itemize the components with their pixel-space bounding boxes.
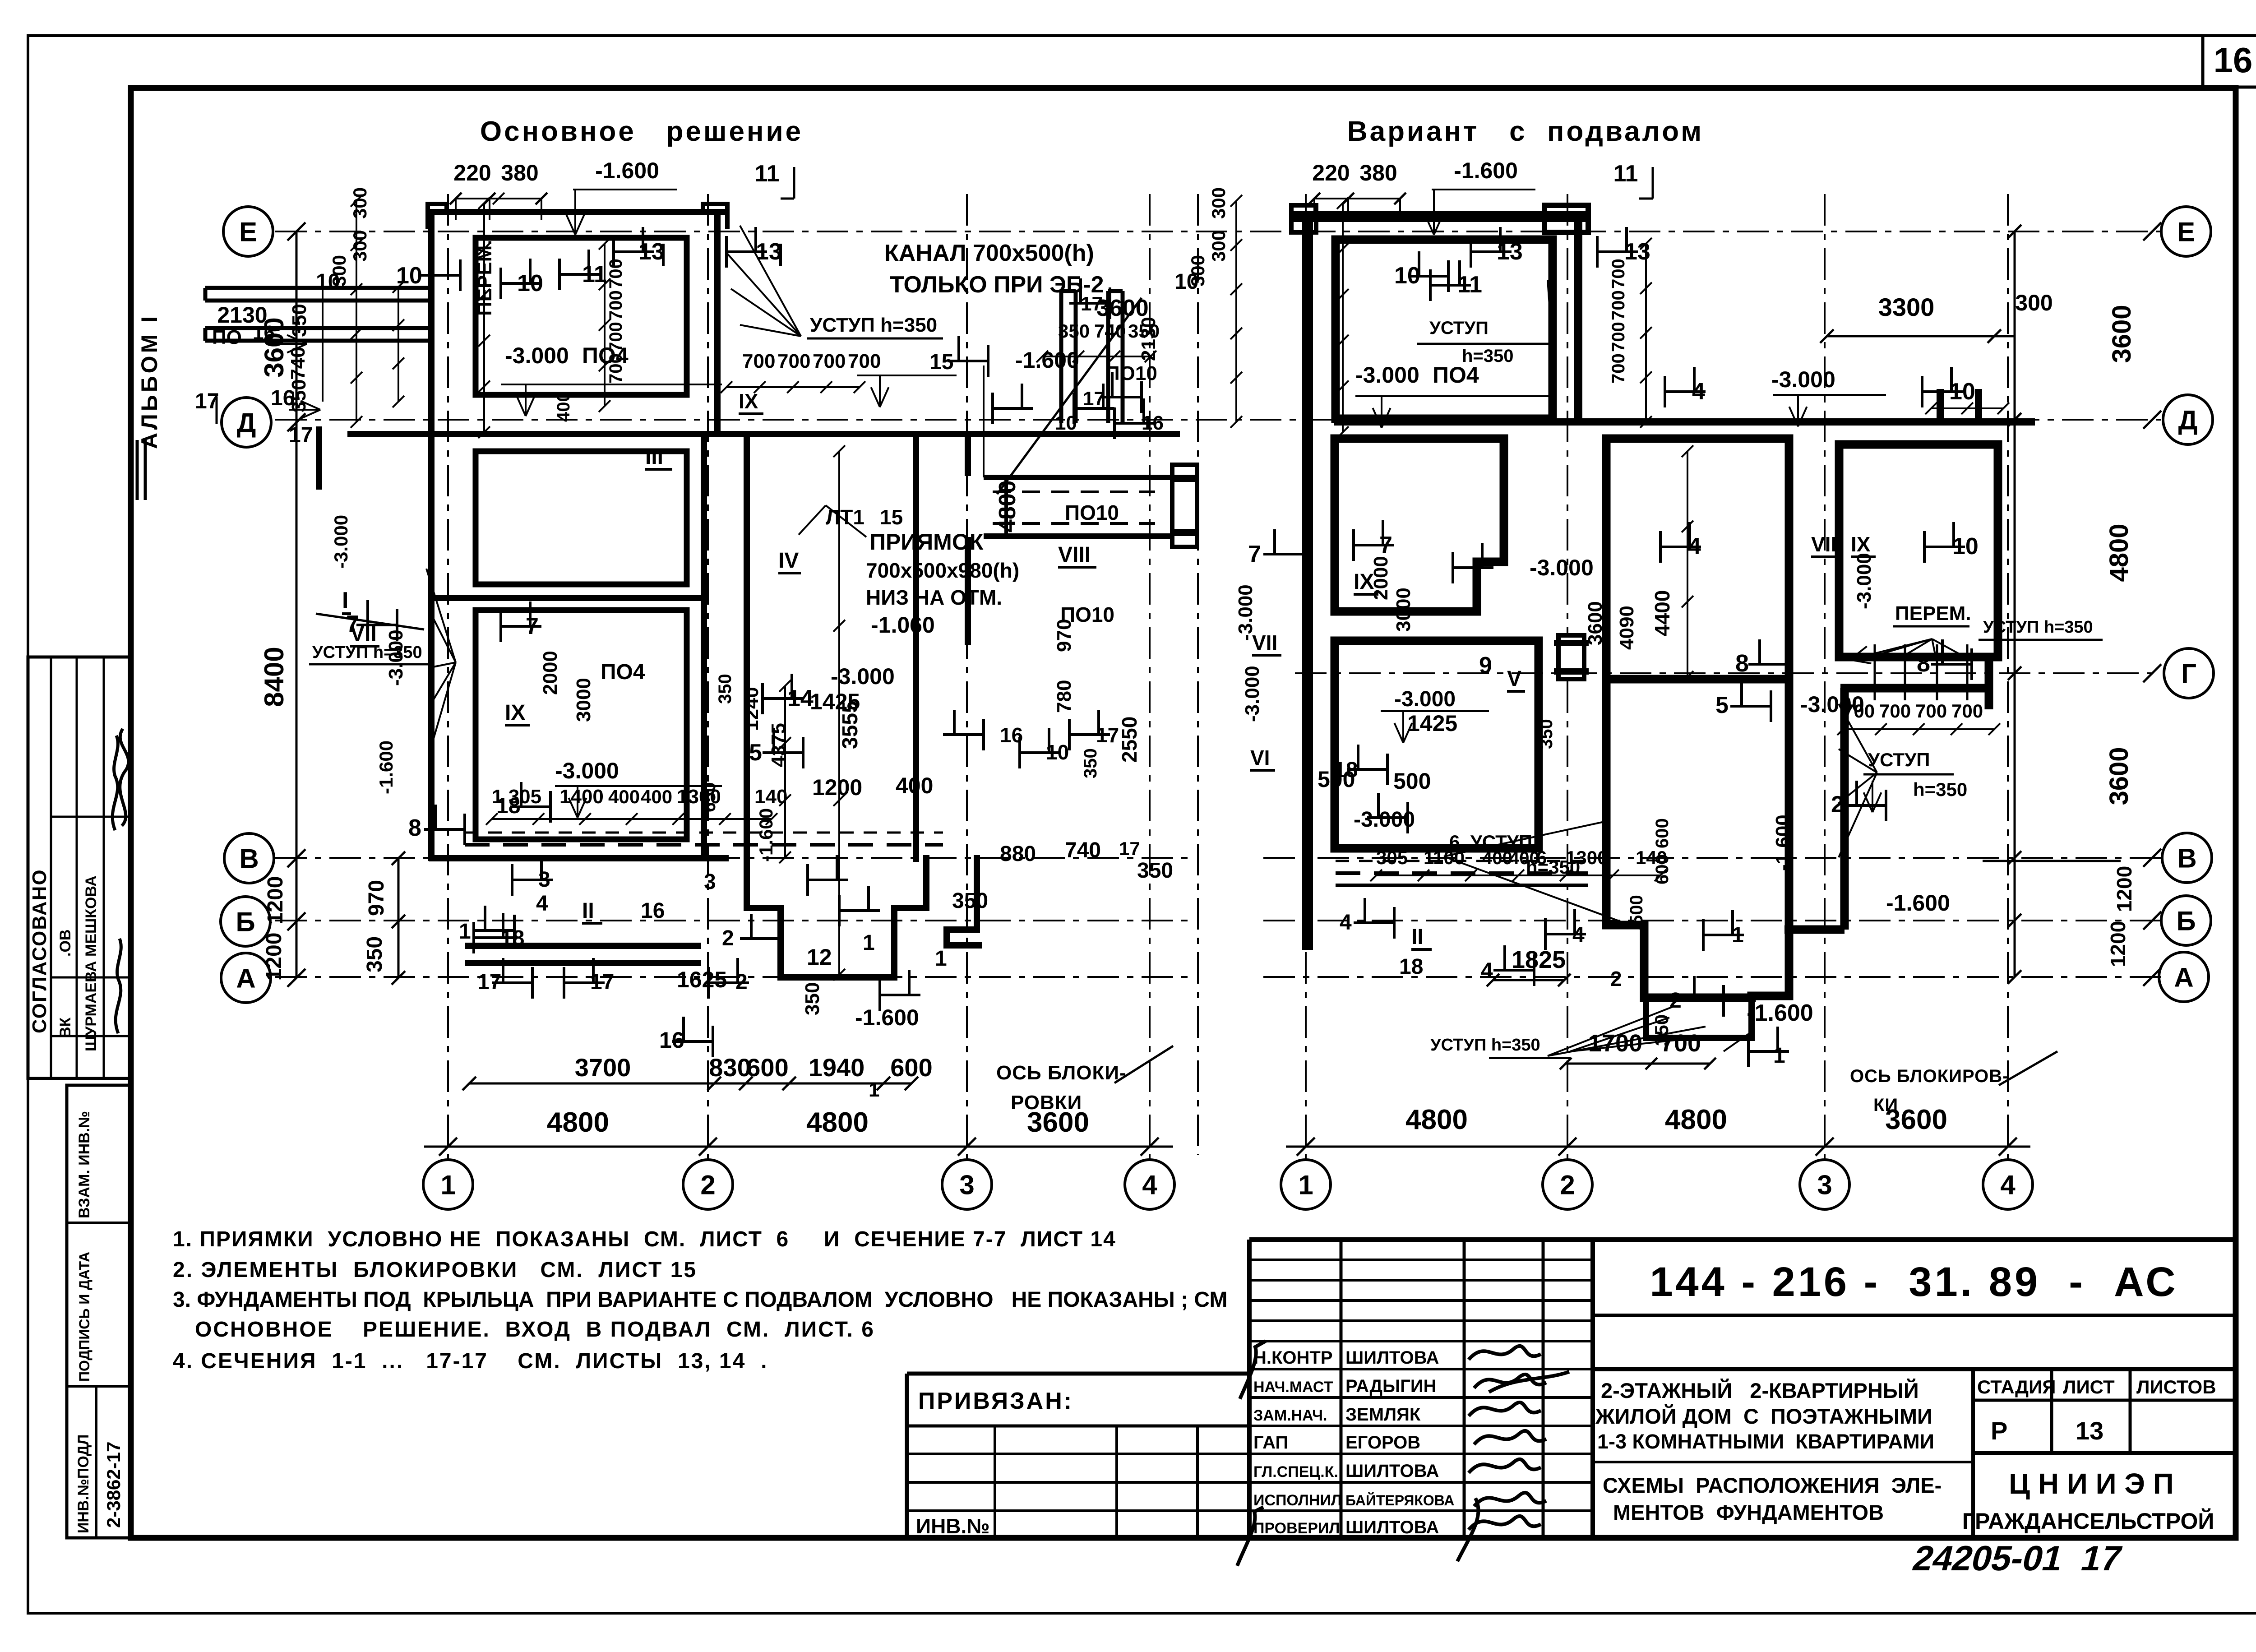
svg-text:13: 13 xyxy=(2076,1416,2103,1445)
svg-text:3: 3 xyxy=(704,870,716,894)
svg-text:ПРИВЯЗАН:: ПРИВЯЗАН: xyxy=(918,1388,1073,1414)
svg-text:МЕШКОВА: МЕШКОВА xyxy=(83,875,100,957)
svg-text:-1.600: -1.600 xyxy=(375,740,397,794)
svg-text:ПРОВЕРИЛ: ПРОВЕРИЛ xyxy=(1253,1520,1340,1537)
svg-text:1: 1 xyxy=(440,1170,455,1200)
svg-text:ИНВ.№ПОДЛ: ИНВ.№ПОДЛ xyxy=(75,1435,92,1533)
svg-text:220: 220 xyxy=(453,160,491,185)
svg-text:700: 700 xyxy=(1609,322,1628,352)
svg-text:СОГЛАСОВАНО: СОГЛАСОВАНО xyxy=(28,869,51,1033)
svg-text:РОВКИ: РОВКИ xyxy=(1011,1092,1082,1114)
svg-text:АЛЬБОМ I: АЛЬБОМ I xyxy=(137,314,162,449)
svg-text:3555: 3555 xyxy=(838,701,862,749)
svg-text:2. ЭЛЕМЕНТЫ БЛОКИРОВКИ СМ.: 2. ЭЛЕМЕНТЫ БЛОКИРОВКИ СМ. ЛИСТ 15 xyxy=(173,1258,697,1282)
svg-text:400: 400 xyxy=(1482,848,1512,868)
svg-text:2: 2 xyxy=(722,926,734,950)
svg-text:700: 700 xyxy=(1609,259,1628,289)
svg-text:ОСНОВНОЕ РЕШЕНИЕ. ВХОД В: ОСНОВНОЕ РЕШЕНИЕ. ВХОД В ПОДВАЛ СМ. ЛИСТ… xyxy=(195,1318,875,1342)
svg-text:380: 380 xyxy=(501,160,538,185)
svg-text:4: 4 xyxy=(1340,911,1352,935)
svg-text:17: 17 xyxy=(289,423,313,447)
svg-text:Е: Е xyxy=(2177,217,2195,247)
svg-text:1 305: 1 305 xyxy=(492,786,541,808)
svg-text:1425: 1425 xyxy=(1407,711,1457,736)
svg-text:V: V xyxy=(1507,667,1521,691)
svg-text:10: 10 xyxy=(1174,270,1198,294)
svg-text:305: 305 xyxy=(1376,847,1408,868)
svg-text:IV: IV xyxy=(778,549,799,573)
svg-text:II: II xyxy=(1411,925,1424,949)
svg-text:220: 220 xyxy=(1312,160,1350,185)
svg-text:1200: 1200 xyxy=(262,933,286,981)
svg-text:5: 5 xyxy=(749,740,762,766)
svg-text:2: 2 xyxy=(700,1170,715,1200)
svg-text:2: 2 xyxy=(1560,1170,1575,1200)
svg-text:4: 4 xyxy=(2000,1170,2016,1200)
svg-text:8: 8 xyxy=(408,815,421,841)
svg-text:700: 700 xyxy=(1609,290,1628,320)
svg-text:VIII: VIII xyxy=(1058,543,1091,567)
svg-text:А: А xyxy=(2174,963,2193,993)
svg-text:700: 700 xyxy=(606,259,626,289)
svg-text:16: 16 xyxy=(271,386,295,410)
svg-text:350: 350 xyxy=(363,936,387,972)
svg-text:Р: Р xyxy=(1991,1416,2007,1445)
svg-text:350: 350 xyxy=(1536,719,1556,749)
svg-text:350: 350 xyxy=(801,982,823,1015)
svg-text:400: 400 xyxy=(641,786,672,807)
svg-text:3: 3 xyxy=(1817,1170,1832,1200)
svg-text:4: 4 xyxy=(1142,1170,1157,1200)
svg-text:12: 12 xyxy=(807,944,832,970)
svg-text:НИЗ НА ОТМ.: НИЗ НА ОТМ. xyxy=(866,586,1002,609)
svg-text:300: 300 xyxy=(349,187,370,219)
svg-text:ПО4: ПО4 xyxy=(601,660,645,684)
svg-text:ШИЛТОВА: ШИЛТОВА xyxy=(1345,1518,1439,1537)
svg-text:ОСЬ БЛОКИРОВ-: ОСЬ БЛОКИРОВ- xyxy=(1850,1066,2009,1086)
svg-text:ОСЬ БЛОКИ-: ОСЬ БЛОКИ- xyxy=(996,1062,1127,1084)
svg-text:16: 16 xyxy=(641,899,665,923)
svg-text:700: 700 xyxy=(1879,700,1911,722)
svg-text:-3.000: -3.000 xyxy=(505,343,569,368)
svg-text:IX: IX xyxy=(1851,532,1871,556)
svg-text:СТАДИЯ: СТАДИЯ xyxy=(1977,1376,2056,1397)
svg-text:ЗАМ.НАЧ.: ЗАМ.НАЧ. xyxy=(1253,1407,1327,1424)
svg-text:400: 400 xyxy=(554,392,573,422)
svg-text:880: 880 xyxy=(1000,842,1036,866)
svg-text:I: I xyxy=(342,588,348,614)
svg-text:400: 400 xyxy=(896,773,933,798)
svg-text:В: В xyxy=(239,844,259,874)
svg-text:VI: VI xyxy=(1250,746,1270,769)
svg-text:ПО4: ПО4 xyxy=(1433,362,1479,388)
svg-text:16: 16 xyxy=(2214,40,2253,80)
svg-text:-1.600: -1.600 xyxy=(595,158,659,183)
svg-text:10: 10 xyxy=(316,270,340,294)
svg-text:4800: 4800 xyxy=(2104,523,2134,582)
svg-text:4800: 4800 xyxy=(994,480,1021,532)
svg-text:144 - 216 - 31. 89 - АС: 144 - 216 - 31. 89 - АС xyxy=(1650,1259,2178,1305)
svg-text:3600: 3600 xyxy=(2107,305,2136,363)
svg-text:Н.КОНТР: Н.КОНТР xyxy=(1253,1348,1333,1368)
svg-text:КИ: КИ xyxy=(1873,1095,1898,1115)
svg-text:ЛИСТ: ЛИСТ xyxy=(2063,1376,2115,1397)
svg-text:400: 400 xyxy=(1509,848,1539,868)
svg-text:700: 700 xyxy=(777,350,810,372)
svg-text:h=350: h=350 xyxy=(1462,346,1514,366)
svg-text:11: 11 xyxy=(1613,161,1638,187)
svg-text:1300: 1300 xyxy=(1566,847,1608,868)
svg-text:350: 350 xyxy=(288,304,310,337)
svg-text:-1.600: -1.600 xyxy=(1886,890,1950,916)
svg-text:700: 700 xyxy=(1915,700,1947,722)
svg-text:2: 2 xyxy=(1831,791,1844,818)
svg-text:500: 500 xyxy=(1627,895,1646,925)
svg-text:ЛИСТОВ: ЛИСТОВ xyxy=(2136,1376,2216,1397)
svg-text:ЖИЛОЙ ДОМ С ПОЭТАЖНЫМИ: ЖИЛОЙ ДОМ С ПОЭТАЖНЫМИ xyxy=(1595,1404,1932,1428)
svg-text:140: 140 xyxy=(754,786,787,808)
svg-text:-3.000: -3.000 xyxy=(1241,666,1263,722)
svg-text:.ОВ: .ОВ xyxy=(57,930,74,957)
svg-text:УСТУП h=350: УСТУП h=350 xyxy=(1430,1036,1540,1055)
svg-text:1940: 1940 xyxy=(809,1053,865,1082)
svg-text:300: 300 xyxy=(1208,230,1229,262)
svg-text:Д: Д xyxy=(237,408,256,438)
svg-text:1: 1 xyxy=(1773,1044,1785,1068)
svg-text:3600: 3600 xyxy=(1584,601,1606,645)
svg-text:III: III xyxy=(645,445,663,469)
svg-text:А: А xyxy=(236,963,255,994)
svg-text:11: 11 xyxy=(755,161,780,187)
svg-text:700: 700 xyxy=(1951,700,1983,722)
svg-text:СХЕМЫ РАСПОЛОЖЕНИЯ ЭЛЕ-: СХЕМЫ РАСПОЛОЖЕНИЯ ЭЛЕ- xyxy=(1603,1473,1942,1497)
svg-text:4800: 4800 xyxy=(1405,1104,1468,1135)
svg-text:ИСПОЛНИЛ: ИСПОЛНИЛ xyxy=(1253,1492,1342,1509)
svg-text:ЗЕМЛЯК: ЗЕМЛЯК xyxy=(1345,1405,1421,1425)
svg-text:УСТУП h=350: УСТУП h=350 xyxy=(810,314,937,336)
svg-text:700: 700 xyxy=(813,350,846,372)
svg-text:ИНВ.№: ИНВ.№ xyxy=(916,1514,990,1538)
svg-text:II: II xyxy=(582,899,594,923)
svg-text:4: 4 xyxy=(1481,959,1493,983)
svg-text:1: 1 xyxy=(863,931,875,955)
svg-text:ВК: ВК xyxy=(57,1017,74,1038)
svg-text:1200: 1200 xyxy=(812,775,862,800)
svg-text:ПОДПИСЬ И ДАТА: ПОДПИСЬ И ДАТА xyxy=(76,1252,92,1382)
svg-text:ГЛ.СПЕЦ.К.: ГЛ.СПЕЦ.К. xyxy=(1253,1463,1338,1481)
svg-text:УСТУП: УСТУП xyxy=(1429,318,1489,338)
svg-text:-3.000: -3.000 xyxy=(555,758,619,783)
svg-text:Основное решение: Основное решение xyxy=(480,116,803,147)
svg-text:3000: 3000 xyxy=(573,678,595,722)
svg-text:Е: Е xyxy=(239,217,257,247)
svg-text:-3.000: -3.000 xyxy=(1853,553,1875,609)
svg-text:2130: 2130 xyxy=(1137,317,1160,361)
svg-text:740: 740 xyxy=(1065,838,1101,862)
svg-text:4375: 4375 xyxy=(767,723,790,767)
svg-text:350: 350 xyxy=(1058,320,1090,342)
svg-text:4800: 4800 xyxy=(806,1107,869,1138)
svg-text:-3.000: -3.000 xyxy=(1530,555,1594,580)
svg-text:15: 15 xyxy=(880,505,903,529)
svg-text:600: 600 xyxy=(746,1053,788,1082)
svg-text:17: 17 xyxy=(1083,388,1105,410)
svg-text:4090: 4090 xyxy=(1616,606,1638,650)
svg-text:-1.060: -1.060 xyxy=(871,612,935,638)
svg-text:ГРАЖДАНСЕЛЬСТРОЙ: ГРАЖДАНСЕЛЬСТРОЙ xyxy=(1962,1508,2214,1534)
svg-text:2-ЭТАЖНЫЙ 2-КВАРТИРНЫЙ: 2-ЭТАЖНЫЙ 2-КВАРТИРНЫЙ xyxy=(1601,1379,1919,1402)
svg-text:8: 8 xyxy=(1917,650,1930,677)
svg-text:3. ФУНДАМЕНТЫ ПОД КРЫЛЬЦА ПР: 3. ФУНДАМЕНТЫ ПОД КРЫЛЬЦА ПРИ ВАРИАНТЕ С… xyxy=(173,1288,1227,1312)
svg-text:УСТУП: УСТУП xyxy=(1868,749,1930,770)
svg-text:VII: VII xyxy=(1811,532,1836,556)
svg-text:Вариант с подвалом: Вариант с подвалом xyxy=(1347,116,1704,147)
svg-text:-1.600: -1.600 xyxy=(1454,158,1518,183)
svg-text:6: 6 xyxy=(1536,847,1547,868)
svg-text:380: 380 xyxy=(1359,160,1397,185)
svg-text:Г: Г xyxy=(2181,659,2196,689)
svg-text:500: 500 xyxy=(1393,768,1431,794)
svg-text:1200: 1200 xyxy=(264,876,287,925)
svg-text:-3.000: -3.000 xyxy=(1355,362,1419,388)
svg-text:1200: 1200 xyxy=(2113,866,2136,912)
svg-text:НАЧ.МАСТ: НАЧ.МАСТ xyxy=(1253,1379,1333,1396)
svg-text:1-3 КОМНАТНЫМИ КВАРТИРАМИ: 1-3 КОМНАТНЫМИ КВАРТИРАМИ xyxy=(1597,1430,1934,1453)
svg-text:7: 7 xyxy=(1248,541,1261,567)
svg-text:2: 2 xyxy=(1669,989,1682,1013)
svg-text:1625: 1625 xyxy=(677,967,727,992)
svg-text:IX: IX xyxy=(739,389,758,413)
svg-text:4400: 4400 xyxy=(1650,590,1674,636)
svg-text:350: 350 xyxy=(1137,859,1173,883)
svg-text:-3.000: -3.000 xyxy=(330,515,351,569)
svg-text:700х500х980(h): 700х500х980(h) xyxy=(866,559,1019,582)
svg-text:8: 8 xyxy=(1735,650,1749,677)
svg-text:700: 700 xyxy=(1843,700,1875,722)
svg-text:1240: 1240 xyxy=(740,687,763,731)
svg-text:4800: 4800 xyxy=(547,1107,609,1138)
svg-text:970: 970 xyxy=(365,880,388,916)
svg-text:БАЙТЕРЯКОВА: БАЙТЕРЯКОВА xyxy=(1345,1492,1454,1509)
svg-text:9: 9 xyxy=(1479,652,1492,679)
svg-text:-3.000: -3.000 xyxy=(1771,367,1835,392)
svg-text:ВЗАМ. ИНВ.№: ВЗАМ. ИНВ.№ xyxy=(76,1111,93,1218)
svg-text:17: 17 xyxy=(1119,838,1140,859)
svg-text:4. СЕЧЕНИЯ 1-1 ... 17-17: 4. СЕЧЕНИЯ 1-1 ... 17-17 СМ. ЛИСТЫ 13, 1… xyxy=(173,1349,768,1373)
svg-text:3300: 3300 xyxy=(1878,293,1935,321)
svg-text:1100: 1100 xyxy=(1424,847,1465,868)
svg-text:830: 830 xyxy=(709,1053,751,1082)
svg-text:300: 300 xyxy=(2015,290,2053,315)
svg-text:600: 600 xyxy=(890,1053,932,1082)
svg-text:17: 17 xyxy=(195,389,219,413)
svg-text:h=350: h=350 xyxy=(1913,779,1967,800)
svg-text:2-3862-17: 2-3862-17 xyxy=(103,1442,124,1528)
svg-text:600: 600 xyxy=(1652,818,1672,848)
svg-text:3: 3 xyxy=(959,1170,974,1200)
svg-text:РАДЫГИН: РАДЫГИН xyxy=(1345,1376,1437,1396)
svg-text:350: 350 xyxy=(952,889,988,913)
svg-text:-3.000: -3.000 xyxy=(1354,808,1415,832)
svg-text:-3.000: -3.000 xyxy=(1394,687,1456,711)
svg-text:3700: 3700 xyxy=(575,1053,631,1082)
svg-text:350: 350 xyxy=(715,674,735,704)
svg-text:ШИЛТОВА: ШИЛТОВА xyxy=(1345,1348,1439,1368)
svg-text:1400: 1400 xyxy=(559,786,604,808)
svg-text:700: 700 xyxy=(606,353,626,384)
svg-text:Ц Н И И Э П: Ц Н И И Э П xyxy=(2009,1467,2173,1500)
svg-text:-1.600: -1.600 xyxy=(1747,1000,1813,1026)
svg-text:1: 1 xyxy=(1298,1170,1313,1200)
svg-text:Б: Б xyxy=(236,907,255,937)
svg-text:1: 1 xyxy=(869,1079,879,1101)
svg-text:-1.600: -1.600 xyxy=(855,1005,919,1030)
svg-text:ПРИЯМОК: ПРИЯМОК xyxy=(869,529,984,555)
svg-text:4: 4 xyxy=(536,892,548,916)
svg-text:ГАП: ГАП xyxy=(1253,1433,1288,1453)
svg-text:970: 970 xyxy=(1053,619,1075,652)
svg-text:ЕГОРОВ: ЕГОРОВ xyxy=(1345,1433,1420,1453)
svg-text:3600: 3600 xyxy=(2104,747,2134,805)
svg-text:300: 300 xyxy=(349,230,370,262)
svg-text:350: 350 xyxy=(1081,748,1100,778)
svg-text:780: 780 xyxy=(1053,680,1075,713)
svg-text:8400: 8400 xyxy=(259,647,289,707)
svg-text:IX: IX xyxy=(505,701,525,725)
svg-text:400: 400 xyxy=(608,786,640,807)
svg-text:740: 740 xyxy=(1094,320,1126,342)
svg-text:700: 700 xyxy=(1609,353,1628,384)
svg-text:ШУРМАЕВА: ШУРМАЕВА xyxy=(83,961,100,1051)
svg-text:-3.000: -3.000 xyxy=(831,664,895,689)
svg-text:2: 2 xyxy=(1610,967,1622,990)
svg-text:МЕНТОВ ФУНДАМЕНТОВ: МЕНТОВ ФУНДАМЕНТОВ xyxy=(1613,1500,1884,1524)
svg-text:В: В xyxy=(2177,843,2196,874)
svg-text:-3.000: -3.000 xyxy=(1234,584,1257,641)
svg-text:3000: 3000 xyxy=(1392,588,1415,632)
svg-text:2000: 2000 xyxy=(539,651,561,695)
svg-text:700: 700 xyxy=(606,290,626,320)
svg-text:1200: 1200 xyxy=(2106,921,2130,967)
svg-text:2550: 2550 xyxy=(1118,717,1141,763)
svg-text:ПО10: ПО10 xyxy=(1065,501,1119,524)
svg-text:Б: Б xyxy=(2176,906,2196,936)
svg-text:1. ПРИЯМКИ УСЛОВНО НЕ ПОКАЗА: 1. ПРИЯМКИ УСЛОВНО НЕ ПОКАЗАНЫ СМ. ЛИСТ … xyxy=(173,1227,1116,1251)
svg-text:-1.600: -1.600 xyxy=(1772,814,1794,871)
svg-text:КАНАЛ 700х500(h): КАНАЛ 700х500(h) xyxy=(884,240,1094,266)
svg-text:УСТУП h=350: УСТУП h=350 xyxy=(1983,618,2093,637)
svg-text:5: 5 xyxy=(1715,692,1729,718)
svg-text:18: 18 xyxy=(1399,955,1423,979)
svg-text:1: 1 xyxy=(459,920,471,944)
svg-text:4800: 4800 xyxy=(1665,1104,1727,1135)
svg-text:ШИЛТОВА: ШИЛТОВА xyxy=(1345,1461,1439,1481)
svg-text:1: 1 xyxy=(935,947,947,971)
svg-text:24205-01 17: 24205-01 17 xyxy=(1909,1538,2127,1578)
svg-text:ПЕРЕМ.: ПЕРЕМ. xyxy=(1895,602,1971,625)
svg-text:700: 700 xyxy=(742,350,775,372)
svg-text:Д: Д xyxy=(2178,405,2198,435)
svg-text:700: 700 xyxy=(848,350,881,372)
svg-text:ТОЛЬКО ПРИ ЭБ-2: ТОЛЬКО ПРИ ЭБ-2 xyxy=(890,272,1104,298)
svg-text:300: 300 xyxy=(1208,187,1229,219)
svg-text:700: 700 xyxy=(606,322,626,352)
